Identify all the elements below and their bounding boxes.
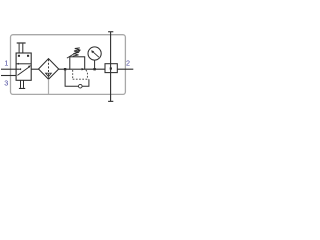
filter F1 diamond (39, 59, 59, 80)
vent line bottom plug (108, 101, 113, 102)
filter F1 water separator triangle (46, 73, 52, 76)
valve V1 pedestal base (19, 88, 25, 89)
regulator R1 relief vent circle (79, 84, 83, 88)
valve V1 blocked port mark left (18, 55, 20, 57)
valve V1 internal line position 2 (16, 63, 31, 65)
valve V1 blocked port mark right (27, 55, 29, 57)
regulator R1 body (70, 57, 85, 69)
valve V1 knob stem (18, 44, 20, 53)
vent line top plug (108, 31, 113, 32)
wire port 1 to valve (1, 68, 16, 70)
gauge G1 dial circle (88, 47, 101, 60)
node junction at relief tap (64, 68, 66, 70)
valve V1 knob cap (17, 42, 26, 43)
regulator R1 pilot dashed right tap (86, 70, 88, 79)
svg-text:3: 3 (4, 78, 8, 87)
wire regulator to gauge junction (85, 68, 105, 70)
node junction inside distributor (110, 67, 112, 69)
wire port 3 to valve (1, 75, 16, 77)
vent line vertical through distributor (110, 32, 112, 102)
regulator R1 relief return line (82, 79, 89, 86)
regulator R1 pilot dashed bottom (73, 78, 89, 80)
regulator R1 adjustment arrow (67, 50, 80, 58)
filter F1 condensate drain line (48, 79, 50, 94)
valve V1 pedestal stem (20, 80, 22, 88)
svg-text:2: 2 (126, 59, 130, 68)
valve V1 diagonal flow path with arrow (17, 67, 29, 76)
wire valve outlet to filter (31, 68, 39, 70)
filter F1 element dashed (48, 59, 50, 79)
wire distributor to port 2 (117, 68, 133, 70)
valve V1 body (16, 53, 31, 80)
regulator R1 pilot dashed left (72, 70, 74, 79)
node junction at gauge stem (93, 68, 95, 70)
gauge G1 stem (94, 60, 96, 69)
regulator R1 flow arrow (82, 68, 85, 71)
regulator R1 spring (73, 48, 80, 56)
distributor block outline (105, 64, 117, 73)
gauge G1 needle (92, 51, 99, 57)
enclosure (service unit boundary) (11, 35, 126, 95)
wire filter to regulator (59, 68, 70, 70)
regulator R1 relief drop line (65, 69, 78, 86)
svg-text:1: 1 (4, 58, 8, 67)
valve V1 port-1 stub line with arrow (16, 68, 19, 70)
